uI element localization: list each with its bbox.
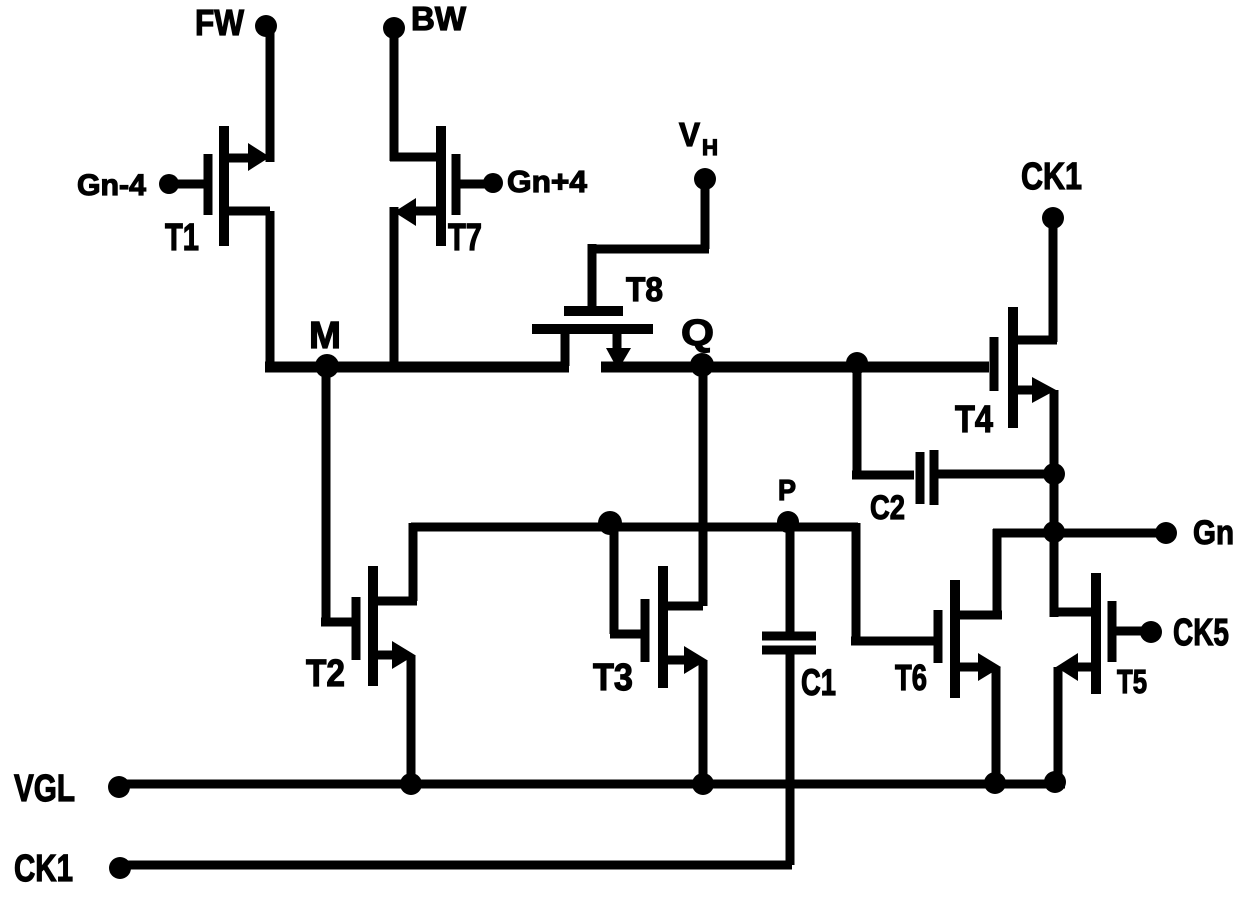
node Gn <box>1155 522 1177 544</box>
svg-text:Gn-4: Gn-4 <box>77 169 146 202</box>
svg-text:BW: BW <box>411 0 467 37</box>
svg-text:VGL: VGL <box>14 768 75 810</box>
wire Gn <box>993 529 1166 538</box>
svg-text:CK5: CK5 <box>1173 612 1229 654</box>
wire BW to T7 drain <box>390 28 399 161</box>
wire T6 drain to Gn <box>993 529 1002 615</box>
svg-text:T5: T5 <box>1117 663 1147 700</box>
junction node C2-T4 <box>1043 463 1065 485</box>
svg-text:T4: T4 <box>955 399 993 441</box>
svg-text:T7: T7 <box>448 217 482 259</box>
svg-text:T8: T8 <box>626 271 663 309</box>
wire VGL <box>119 780 1065 789</box>
svg-text:M: M <box>309 315 341 357</box>
node BW <box>383 17 405 39</box>
svg-text:FW: FW <box>195 2 244 43</box>
wire node M horizontal <box>265 362 569 373</box>
wire T3 gate from P <box>610 520 645 634</box>
wire T5 source to VGL <box>1054 667 1063 786</box>
svg-text:T1: T1 <box>165 217 199 259</box>
transistor T7 <box>390 126 456 246</box>
wire T1 source to node M <box>266 211 275 366</box>
wire M to T2 gate <box>321 366 356 622</box>
node FW <box>255 15 277 37</box>
capacitor C1 <box>762 636 816 650</box>
junction node T2-VGL <box>400 773 422 795</box>
node VGL <box>108 776 130 798</box>
wire C2 left <box>852 358 914 475</box>
transistor T3 <box>645 566 707 688</box>
svg-text:CK1: CK1 <box>14 848 73 890</box>
wire FW to T1 drain <box>266 26 275 162</box>
junction node T5-VGL <box>1044 771 1066 793</box>
node CK5 <box>1140 621 1162 643</box>
transistor T1 <box>208 126 270 246</box>
junction node Gn <box>1043 521 1065 543</box>
svg-text:T2: T2 <box>306 653 345 695</box>
svg-text:CK1: CK1 <box>1021 156 1082 198</box>
wire T7 source to node M <box>390 207 399 366</box>
wire T6 source to VGL <box>992 667 1001 786</box>
svg-text:C2: C2 <box>870 489 905 527</box>
wire CK1 to T4 drain <box>1049 218 1058 342</box>
wire T5 drain <box>1050 608 1096 617</box>
node Q <box>690 353 714 377</box>
transistor T5 <box>1056 573 1112 694</box>
junction node T3-VGL <box>692 773 714 795</box>
node CK1 top <box>1042 207 1064 229</box>
wire T6 gate from P <box>851 523 938 641</box>
svg-text:H: H <box>702 135 718 160</box>
svg-text:P: P <box>778 475 796 507</box>
junction node T6-VGL <box>984 772 1006 794</box>
label VH <box>679 116 718 160</box>
node Gn+4 <box>483 173 503 193</box>
wire T7 gate <box>456 180 493 189</box>
wire Q to T3 drain <box>699 366 708 606</box>
wire T2 drain to P <box>409 523 418 601</box>
transistor T8 <box>532 311 653 370</box>
svg-text:Gn: Gn <box>1193 514 1234 552</box>
wire C2 right <box>934 470 1058 479</box>
junction node T3 gate <box>598 511 622 535</box>
svg-text:V: V <box>679 116 700 153</box>
wire T5 gate <box>1112 627 1146 636</box>
wire P horizontal <box>411 523 858 532</box>
transistor T6 <box>938 580 1002 698</box>
wire VH to T8 gate <box>588 179 709 311</box>
wire T2 source to VGL <box>407 655 416 786</box>
node VH <box>694 168 716 190</box>
node P <box>777 511 799 533</box>
svg-text:C1: C1 <box>801 662 836 703</box>
node CK1 bottom <box>109 857 131 879</box>
wire T1 gate <box>169 180 204 189</box>
transistor T2 <box>356 566 417 686</box>
wire node Q horizontal <box>601 362 989 373</box>
svg-text:Q: Q <box>681 312 714 353</box>
capacitor C2 <box>920 450 934 505</box>
wire C1 bottom to CK1 <box>786 650 795 865</box>
wire CK1 bottom <box>120 861 792 870</box>
wire C1 top <box>786 527 795 636</box>
wire T3 source to VGL <box>699 660 708 786</box>
transistor T4 <box>994 307 1057 428</box>
svg-text:T3: T3 <box>593 657 633 699</box>
wire T4 source down <box>1050 390 1059 617</box>
node Gn-4 <box>159 174 179 194</box>
svg-text:Gn+4: Gn+4 <box>507 164 588 199</box>
junction node C2 branch <box>846 352 868 374</box>
svg-text:T6: T6 <box>895 657 927 698</box>
node M <box>315 354 339 378</box>
